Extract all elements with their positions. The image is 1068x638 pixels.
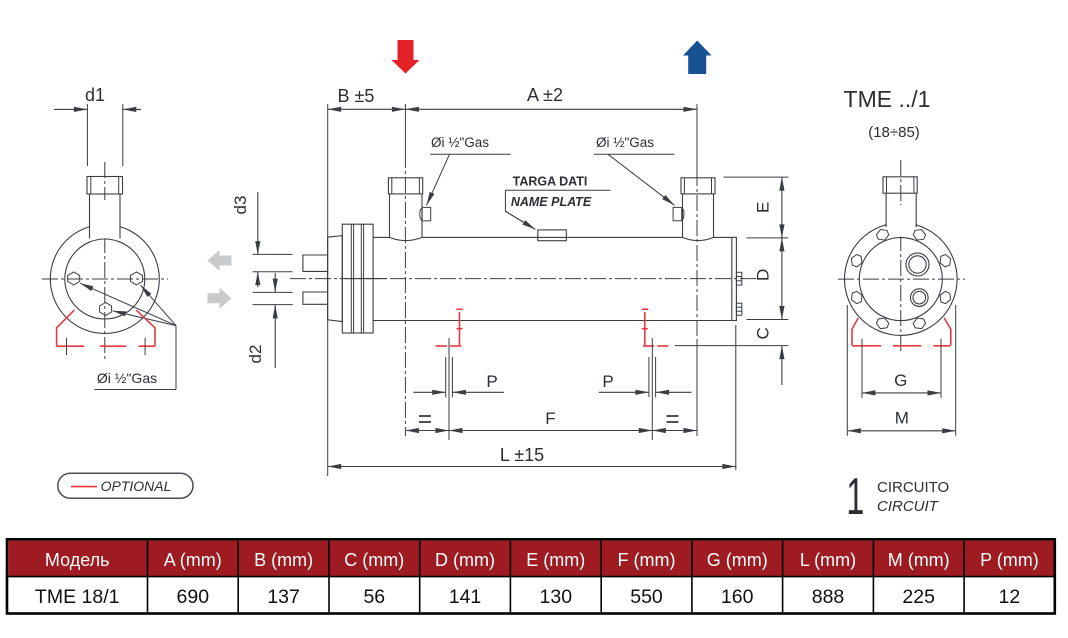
right nozzle: [681, 178, 715, 241]
right P extension lines: [649, 357, 656, 397]
svg-text:B (mm): B (mm): [254, 550, 313, 570]
svg-text:CIRCUITO: CIRCUITO: [877, 479, 949, 496]
left P extension lines: [446, 357, 453, 397]
svg-text:B ±5: B ±5: [338, 86, 375, 106]
table data row: [35, 586, 1020, 608]
tube sheet band right: [732, 237, 737, 320]
svg-text:888: 888: [812, 586, 845, 608]
dimension L: [328, 325, 736, 470]
left view foot tick marks: [67, 338, 146, 355]
left view hex plug left: [68, 272, 80, 285]
data table: [7, 539, 1055, 613]
svg-text:d1: d1: [85, 85, 105, 105]
svg-text:Øi ½"Gas: Øi ½"Gas: [596, 135, 654, 150]
svg-text:E: E: [754, 202, 773, 213]
svg-text:G: G: [894, 371, 907, 390]
right view big port: [906, 253, 929, 276]
dimension C: [675, 327, 789, 385]
svg-text:M: M: [895, 409, 909, 428]
dimension B: [328, 86, 406, 476]
svg-text:F: F: [545, 409, 555, 428]
nozzle centerline right: [696, 170, 698, 340]
name plate: [538, 230, 567, 241]
svg-text:P: P: [602, 372, 613, 391]
dimension M: [847, 305, 955, 436]
right view flange circle: [845, 205, 958, 335]
table header row: [45, 550, 1039, 570]
left bracket tick: [448, 338, 450, 440]
dimension A: [405, 85, 697, 170]
left view red optional saddle: [57, 310, 155, 346]
svg-text:NAME PLATE: NAME PLATE: [511, 195, 592, 209]
shell body: [373, 237, 732, 320]
circuit count label: [846, 468, 949, 526]
svg-text:550: 550: [630, 586, 663, 608]
bonnet head: [328, 236, 343, 322]
gray flow arrow right: [208, 288, 232, 309]
svg-text:1: 1: [846, 468, 864, 526]
svg-text:130: 130: [540, 586, 573, 608]
bolt nub lower: [736, 303, 741, 315]
left view gas label: [94, 370, 176, 390]
dimension D: [746, 238, 788, 320]
blue outlet arrow: [683, 41, 712, 75]
red inlet arrow: [392, 40, 420, 74]
svg-text:L (mm): L (mm): [800, 550, 856, 570]
left view leader lines to plugs: [80, 283, 176, 389]
svg-text:L ±15: L ±15: [500, 445, 544, 465]
right view bolt hexes: [849, 227, 952, 330]
svg-text:F (mm): F (mm): [618, 550, 676, 570]
svg-text:TARGA DATI: TARGA DATI: [513, 175, 588, 189]
right drain fitting: [673, 207, 684, 220]
left red bracket: [435, 309, 462, 346]
dimension P left: [413, 372, 504, 392]
dimension d3: [231, 192, 293, 287]
bolt nub upper: [736, 272, 741, 285]
svg-text:(18÷85): (18÷85): [868, 124, 920, 141]
dimension d2: [246, 273, 293, 368]
dimension G: [862, 339, 941, 398]
dimension equal left: [405, 416, 449, 431]
svg-text:160: 160: [721, 586, 754, 608]
right view centerlines: [838, 160, 965, 352]
dimension E: [724, 177, 789, 238]
svg-text:C (mm): C (mm): [344, 550, 404, 570]
optional legend: [58, 473, 193, 498]
right view red saddle: [852, 318, 951, 346]
lower pipe stub: [303, 292, 328, 304]
dimension P right: [599, 372, 692, 392]
svg-text:D: D: [754, 269, 773, 281]
svg-text:M (mm): M (mm): [888, 550, 950, 570]
right view small port: [911, 289, 929, 307]
left drain fitting: [420, 207, 431, 221]
dimension d1: [54, 85, 141, 166]
svg-text:TME ../1: TME ../1: [844, 86, 931, 112]
svg-text:690: 690: [177, 586, 210, 608]
svg-text:Øi ½"Gas: Øi ½"Gas: [431, 135, 489, 150]
right gas label: [594, 135, 675, 205]
flange centerline cross: [345, 278, 386, 280]
svg-text:C: C: [754, 327, 773, 339]
svg-text:A ±2: A ±2: [527, 85, 563, 105]
svg-text:P: P: [486, 372, 497, 391]
svg-text:G (mm): G (mm): [707, 550, 768, 570]
svg-text:137: 137: [267, 586, 300, 608]
dimension F: [449, 409, 652, 431]
right red bracket: [642, 309, 669, 346]
svg-text:CIRCUIT: CIRCUIT: [877, 498, 940, 515]
svg-text:Модель: Модель: [45, 550, 110, 570]
svg-text:OPTIONAL: OPTIONAL: [101, 478, 172, 494]
svg-text:E (mm): E (mm): [526, 550, 585, 570]
right bracket tick: [651, 338, 653, 440]
svg-text:56: 56: [363, 586, 385, 608]
svg-text:d3: d3: [231, 196, 250, 215]
svg-text:TME 18/1: TME 18/1: [35, 586, 120, 608]
flange stack: [342, 224, 373, 333]
left view hex plug bottom: [100, 303, 112, 316]
svg-text:141: 141: [449, 586, 482, 608]
left view centerline horizontal: [42, 278, 168, 280]
left gas label: [427, 135, 511, 205]
svg-text:d2: d2: [246, 345, 265, 364]
gray flow arrow left: [208, 250, 232, 271]
svg-text:A (mm): A (mm): [164, 550, 222, 570]
svg-text:P (mm): P (mm): [980, 550, 1039, 570]
left view hex plug right: [131, 272, 143, 285]
dimension equal right: [652, 416, 697, 431]
left view pipe: [50, 162, 159, 360]
left nozzle: [388, 178, 422, 241]
shell centerline: [290, 278, 757, 280]
svg-text:D (mm): D (mm): [435, 550, 495, 570]
targa dati label: [505, 175, 610, 230]
upper pipe stub: [303, 255, 328, 271]
svg-text:Øi ½"Gas: Øi ½"Gas: [97, 370, 157, 386]
right view pipe: [883, 177, 917, 227]
svg-text:12: 12: [999, 586, 1021, 608]
nozzle centerline left: [404, 152, 406, 436]
svg-text:225: 225: [902, 586, 935, 608]
